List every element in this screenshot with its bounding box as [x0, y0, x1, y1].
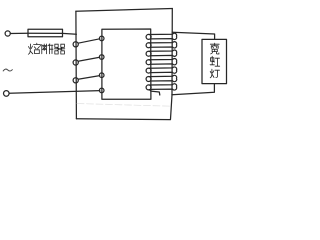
terminal A (top AC input)	[5, 31, 10, 36]
AC source symbol ~	[3, 69, 12, 71]
glyph 熔	[28, 43, 40, 54]
core outer edge: top	[76, 9, 172, 12]
glyph 虹	[210, 56, 220, 66]
scan crease (very faint)	[77, 104, 171, 107]
core window (inner rectangle)	[102, 29, 151, 99]
core outer edge: right	[171, 9, 173, 120]
label 霓虹灯 (neon lamp, vertical)	[210, 43, 220, 78]
secondary coil turn 3	[146, 50, 177, 56]
glyph 器	[54, 44, 64, 54]
glyph 灯	[210, 69, 219, 78]
secondary coil turn 5	[146, 67, 177, 73]
wire: neon lamp bottom back to secondary	[172, 84, 215, 95]
secondary coil turn 6	[146, 75, 177, 81]
core outer edge: left	[75, 11, 78, 119]
secondary coil turn 1	[146, 33, 177, 39]
label 熔断器 (fuse)	[28, 43, 65, 54]
primary coil turn 3	[73, 73, 104, 83]
primary coil turn 4 hook	[99, 88, 104, 93]
secondary coil turn 7	[146, 84, 177, 90]
wire: terminal B to primary coil bottom hook	[9, 91, 99, 94]
glyph 霓	[210, 43, 219, 54]
secondary coil turn 4	[146, 59, 177, 65]
wire: through fuse to core left edge	[28, 33, 76, 34]
wire: secondary top to neon lamp	[172, 32, 214, 39]
primary coil turn 1	[73, 36, 104, 47]
fuse (熔断器) body	[28, 29, 63, 37]
terminal B (bottom AC input)	[4, 91, 10, 97]
primary coil turn 2	[73, 55, 104, 65]
core outer edge: bottom	[76, 118, 170, 121]
secondary coil turn 2	[146, 42, 177, 48]
wire: terminal A to fuse	[10, 32, 28, 34]
neon lamp (霓虹灯) box	[202, 39, 227, 83]
secondary winding end tail	[149, 90, 160, 95]
glyph 断	[42, 44, 53, 54]
